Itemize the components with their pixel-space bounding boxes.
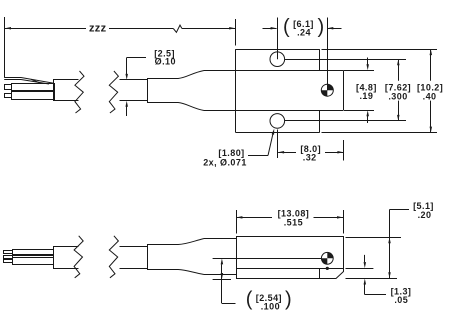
cable jacket (side view): [54, 247, 79, 269]
svg-text:zzz: zzz: [89, 22, 107, 34]
dimension [8.0]/.32 hole to face: [278, 130, 344, 163]
dimension [10.2]/.40 body width: [322, 49, 444, 133]
pin terminal (top, side view): [4, 251, 13, 254]
wire (top conductor, side view): [13, 250, 54, 255]
dimension [13.08]/.515 body length: [236, 208, 343, 233]
dimension (6.1)/.24 hole to sensing element: [263, 16, 342, 90]
svg-text:.32: .32: [303, 153, 317, 163]
sensor body flange (top view): [236, 49, 320, 133]
strain relief (side view): [148, 245, 179, 270]
lead line to sensing element: [213, 258, 322, 260]
svg-text:(: (: [283, 16, 290, 38]
dimension [7.62]/.300 hole spacing: [285, 59, 411, 121]
element pocket edge (side view): [319, 269, 321, 279]
sensor body (side view, chamfered corner): [237, 237, 344, 279]
pin terminal (bottom, side view): [4, 260, 13, 263]
dimension [5.1]/.20 body height: [346, 201, 434, 279]
svg-text:(: (: [246, 288, 253, 310]
svg-text:.19: .19: [359, 91, 373, 101]
svg-text:): ): [285, 288, 292, 310]
break line 1 (side view): [74, 236, 83, 278]
svg-text:.05: .05: [394, 295, 408, 305]
break line 2 (side view): [109, 236, 118, 278]
cable jacket (top view): [54, 80, 79, 101]
svg-text:): ): [318, 16, 325, 38]
extension line left end of cable (zzz datum): [4, 17, 6, 78]
break line 2 (top view): [109, 71, 118, 113]
svg-text:.100: .100: [261, 301, 280, 311]
svg-text:.300: .300: [388, 91, 407, 101]
wire (cable segment, side view): [120, 247, 148, 269]
svg-text:.20: .20: [418, 210, 432, 220]
svg-text:.515: .515: [284, 218, 303, 228]
strain relief (top view): [148, 79, 179, 103]
dimension zzz (overall cable length): [5, 19, 236, 46]
sensor nose band (top view): [204, 70, 344, 110]
svg-text:.40: .40: [423, 92, 437, 102]
wire (middle conductor): [12, 84, 55, 91]
dimension 2x holes leader [1.80]: [203, 129, 274, 168]
mounting hole (bottom): [270, 114, 285, 129]
wire (thin bare lead, side view): [13, 256, 54, 258]
neck (side view): [204, 239, 237, 275]
wire (thin bare lead, top): [4, 78, 54, 85]
dimension [1.3]/.05 base thickness: [346, 255, 412, 305]
break line 1 (top view): [75, 71, 84, 113]
svg-text:2x, Ø.071: 2x, Ø.071: [203, 158, 247, 168]
datum target symbol (side view): [321, 252, 333, 264]
sensing element dot: [326, 267, 329, 270]
wire (cable segment, top view): [120, 80, 148, 101]
wire (bottom conductor, side view): [13, 258, 54, 265]
pin terminal (bottom): [5, 94, 12, 98]
datum target symbol (top view): [321, 84, 333, 96]
svg-text:[1.80]: [1.80]: [218, 148, 244, 158]
taper transition (side view): [178, 239, 204, 275]
dimension [2.5] cable diameter leader: [125, 48, 176, 116]
svg-text:Ø.10: Ø.10: [155, 57, 176, 67]
pin terminal (middle, side view): [4, 256, 13, 259]
dimension (2.54)/.100 element height: [213, 258, 292, 311]
taper transition (top view): [178, 71, 204, 111]
body base line (side view): [236, 268, 343, 270]
pin terminal (middle): [5, 85, 12, 90]
wire (bottom conductor): [12, 92, 55, 100]
svg-text:.24: .24: [297, 27, 311, 37]
mounting hole (top): [270, 52, 285, 67]
dimension [4.8]/.19 nose width: [344, 58, 377, 124]
